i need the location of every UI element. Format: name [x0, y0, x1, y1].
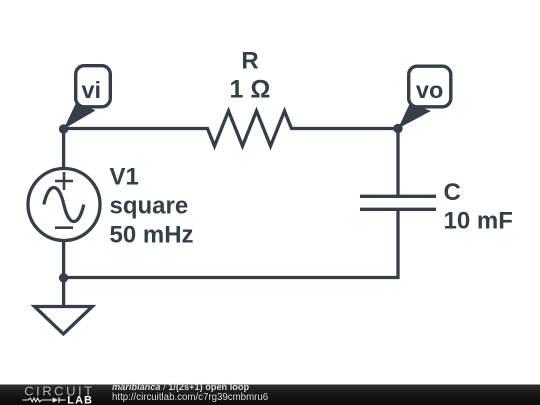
- svg-text:C: C: [444, 179, 461, 206]
- svg-text:50 mHz: 50 mHz: [110, 222, 194, 249]
- svg-text:1 Ω: 1 Ω: [230, 76, 271, 104]
- svg-text:LAB: LAB: [67, 395, 93, 405]
- svg-text:vo: vo: [416, 77, 443, 103]
- svg-text:http://circuitlab.com/c7rg39cm: http://circuitlab.com/c7rg39cmbmru6: [112, 392, 268, 403]
- svg-text:V1: V1: [110, 164, 139, 191]
- svg-text:vi: vi: [81, 77, 101, 103]
- svg-text:R: R: [241, 48, 258, 75]
- svg-text:mariblanca / 1/(2s+1) open loo: mariblanca / 1/(2s+1) open loop: [112, 382, 249, 392]
- svg-text:10 mF: 10 mF: [444, 208, 513, 235]
- svg-text:square: square: [110, 193, 189, 220]
